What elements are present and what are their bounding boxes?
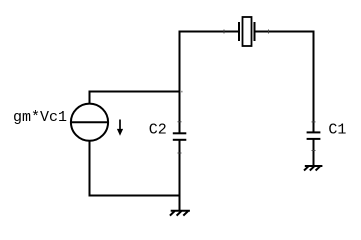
- pin tick (right pin): [268, 30, 270, 34]
- C1 pin tick (top): [312, 121, 316, 123]
- wire: [179, 140, 181, 211]
- right electrode plate: [254, 22, 256, 41]
- capacitor C1: [307, 122, 321, 151]
- wire: [179, 31, 181, 134]
- capacitor C2: [173, 122, 187, 153]
- current source gm*Vc1: [71, 104, 108, 141]
- wire: [89, 91, 91, 105]
- C2 pin tick (top): [178, 121, 182, 123]
- wire: [313, 139, 315, 166]
- C2 top plate: [173, 132, 187, 134]
- source diameter bar: [71, 121, 108, 123]
- svg-text:C1: C1: [328, 122, 346, 139]
- quartz body: [243, 17, 252, 46]
- wire: [90, 195, 181, 197]
- wire: [180, 31, 240, 33]
- source circle: [71, 104, 108, 141]
- arrow (current direction): [117, 120, 123, 136]
- C1 top plate: [307, 131, 321, 133]
- pin tick (left pin): [223, 30, 225, 34]
- wire: [313, 31, 315, 133]
- C1 bottom plate: [307, 138, 321, 140]
- wire: [255, 31, 314, 33]
- left electrode plate: [238, 22, 240, 41]
- ground (center): [170, 211, 190, 216]
- wire: [89, 91, 181, 93]
- C2 pin tick (bottom): [178, 152, 182, 154]
- wire: [89, 141, 91, 197]
- svg-text:C2: C2: [149, 122, 167, 139]
- C1 pin tick (bottom): [312, 150, 316, 152]
- C2 bottom plate: [173, 139, 187, 141]
- ground (under C1): [304, 166, 322, 171]
- crystal (quartz resonator): [224, 17, 269, 46]
- node nub at wire junction: [181, 91, 183, 93]
- svg-text:gm*Vc1: gm*Vc1: [13, 109, 67, 126]
